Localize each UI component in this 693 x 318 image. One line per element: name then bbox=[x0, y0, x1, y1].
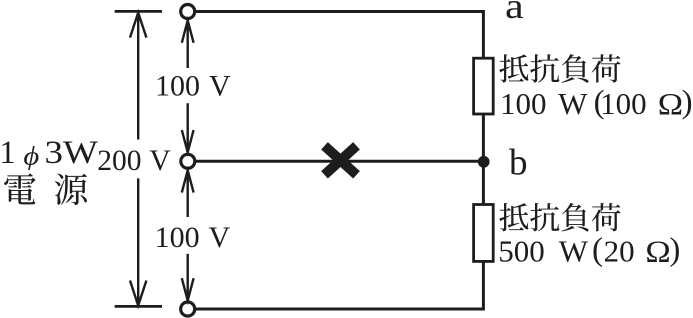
resistor R2 body bbox=[474, 205, 494, 262]
100V arrow A shaft upper bbox=[186, 21, 188, 69]
100V arrow A shaft lower bbox=[186, 103, 188, 152]
svg-text:W: W bbox=[558, 86, 588, 121]
terminal bottom (open circle) bbox=[181, 302, 195, 316]
svg-text:W: W bbox=[559, 233, 589, 268]
svg-text:): ) bbox=[669, 232, 680, 268]
svg-text:Ω: Ω bbox=[658, 87, 683, 121]
label source kanji DEN (electric) bbox=[4, 173, 36, 204]
svg-text:100: 100 bbox=[500, 86, 547, 121]
svg-text:ϕ: ϕ bbox=[23, 143, 39, 171]
svg-text:500: 500 bbox=[498, 233, 545, 268]
dimension tick bottom bbox=[115, 305, 162, 308]
voltage dimension arrows group bbox=[130, 13, 194, 306]
100V arrow B shaft upper bbox=[186, 170, 188, 217]
svg-text:a: a bbox=[505, 0, 524, 26]
wire bottom rail from terminal to corner under R2 bbox=[196, 262, 483, 309]
terminal middle (open circle) bbox=[181, 154, 195, 168]
terminal top (open circle) bbox=[181, 5, 195, 19]
X stroke 2 bbox=[325, 146, 357, 175]
svg-text:b: b bbox=[509, 142, 528, 183]
svg-text:100: 100 bbox=[600, 86, 647, 121]
wire middle rail from terminal to node b bbox=[196, 160, 483, 163]
label source kanji GEN (source) bbox=[55, 174, 87, 206]
100V arrow B head down bbox=[182, 278, 194, 300]
svg-text:100 V: 100 V bbox=[155, 70, 231, 103]
dimension tick top bbox=[115, 10, 162, 13]
label 100 W (100 ohm) bbox=[500, 85, 693, 122]
svg-text:100 V: 100 V bbox=[155, 221, 231, 254]
wire top rail from terminal to corner above node a side, down to R1 bbox=[196, 12, 483, 59]
wires group bbox=[196, 12, 483, 310]
label resistive load 2 kanji (teikoufuka) bbox=[499, 203, 620, 231]
100V arrow A head down bbox=[182, 130, 194, 152]
resistor R1 body bbox=[474, 58, 494, 114]
X stroke 1 bbox=[325, 146, 357, 175]
label resistive load 1 kanji (teikoufuka) bbox=[499, 54, 620, 82]
svg-text:Ω: Ω bbox=[645, 235, 670, 269]
100V arrow A head up bbox=[182, 21, 194, 43]
svg-text:1: 1 bbox=[0, 135, 16, 171]
200V arrowhead down bbox=[130, 281, 146, 306]
svg-text:200 V: 200 V bbox=[97, 145, 170, 177]
100V arrow B head up bbox=[182, 170, 194, 192]
svg-text:): ) bbox=[682, 85, 693, 121]
break mark X on middle wire bbox=[325, 146, 357, 175]
svg-text:20: 20 bbox=[604, 233, 635, 268]
svg-text:3W: 3W bbox=[45, 135, 99, 171]
200V arrow shaft upper bbox=[137, 13, 139, 140]
node b junction dot bbox=[478, 156, 490, 168]
label source 1phi3W bbox=[0, 135, 98, 171]
200V arrowhead up bbox=[130, 13, 146, 38]
wire R1 bottom through node b to R2 top bbox=[482, 115, 485, 205]
label 500 W (20 ohm) bbox=[498, 232, 680, 269]
200V arrow shaft lower bbox=[137, 178, 139, 305]
svg-text:(: ( bbox=[592, 232, 603, 268]
100V arrow B shaft lower bbox=[186, 254, 188, 301]
